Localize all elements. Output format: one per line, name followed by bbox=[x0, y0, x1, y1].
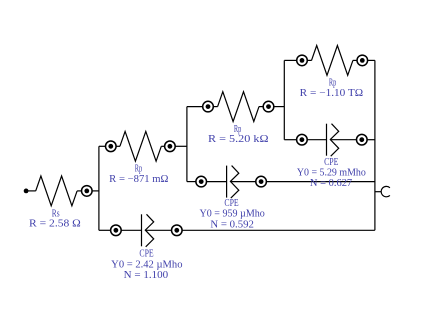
wire N12 to CPE1 bbox=[121, 229, 141, 231]
wire N10 to CPE2 bbox=[207, 181, 227, 183]
capacitor CPE3 plate (Y0 = 5.29 mMho) bbox=[326, 124, 328, 156]
node N13 bbox=[172, 225, 183, 236]
wire vertical V4 (right rail) bbox=[374, 60, 376, 230]
wire node N1 to vertical V1 bbox=[92, 190, 99, 192]
wire N13 to right rail V4 bbox=[182, 229, 375, 231]
wire CPE3 to node N9 bbox=[330, 139, 356, 141]
svg-text:R = −1.10 TΩ: R = −1.10 TΩ bbox=[300, 88, 364, 99]
capacitor CPE1 plate (Y0 = 2.42 uMho) bbox=[141, 214, 143, 246]
wire V2 bottom to node N10 bbox=[187, 181, 196, 183]
node N8 bbox=[297, 134, 308, 145]
wire N6 to Rp3 bbox=[307, 59, 311, 61]
wire N4 to Rp2 bbox=[213, 106, 217, 108]
wire V1 top to node N2 bbox=[99, 145, 106, 147]
node N4 bbox=[203, 101, 214, 112]
wire N7 to right rail V4 bbox=[368, 59, 375, 61]
capacitor CPE2 plate (Y0 = 959 uMho) bbox=[226, 166, 228, 198]
wire vertical V1 (junction rail) bbox=[98, 146, 100, 230]
node N9 bbox=[357, 134, 368, 145]
wire Rp2 to node N5 bbox=[259, 106, 263, 108]
wire right rail to terminal T2 bbox=[375, 191, 381, 193]
capacitor CPE3 zigzag bbox=[330, 124, 338, 157]
wire V2 top to node N4 bbox=[187, 106, 203, 108]
wire CPE2 to node N11 bbox=[230, 181, 255, 183]
resistor Rp2 (R = 5.20 kOhm) bbox=[218, 92, 259, 122]
svg-text:N = 0.627: N = 0.627 bbox=[310, 178, 352, 189]
svg-text:Y0 = 959 µMho: Y0 = 959 µMho bbox=[200, 208, 265, 219]
svg-text:CPE: CPE bbox=[324, 157, 338, 168]
node N7 bbox=[357, 55, 368, 66]
wire N5 to vertical V3 bbox=[274, 106, 285, 108]
node N12 bbox=[111, 225, 122, 236]
resistor Rp1 (R = -871 mOhm) bbox=[120, 131, 161, 161]
svg-text:R = 5.20 kΩ: R = 5.20 kΩ bbox=[208, 134, 269, 145]
svg-text:CPE: CPE bbox=[224, 198, 238, 209]
resistor Rp3 (R = -1.10 TOhm) bbox=[312, 46, 353, 76]
svg-text:Rp: Rp bbox=[329, 77, 336, 88]
node N3 bbox=[165, 141, 176, 152]
wire Rp1 to node N3 bbox=[161, 145, 164, 147]
svg-text:R = 2.58 Ω: R = 2.58 Ω bbox=[29, 219, 81, 230]
svg-text:R = −871 mΩ: R = −871 mΩ bbox=[109, 174, 168, 185]
terminal T2 (output, open clip) bbox=[381, 186, 390, 196]
svg-text:CPE: CPE bbox=[139, 248, 153, 259]
wire vertical V2 (junction rail) bbox=[186, 107, 188, 182]
wire vertical V3 (junction rail) bbox=[283, 60, 285, 139]
wire CPE1 to node N13 bbox=[145, 229, 171, 231]
wire T1 to Rs bbox=[28, 190, 36, 192]
resistor Rs bbox=[36, 176, 77, 206]
wire N9 to right rail V4 bbox=[367, 139, 375, 141]
svg-text:N = 1.100: N = 1.100 bbox=[124, 270, 169, 281]
node N11 bbox=[256, 176, 267, 187]
node N5 bbox=[263, 101, 274, 112]
wire Rp3 to node N7 bbox=[353, 59, 357, 61]
svg-text:Rp: Rp bbox=[135, 164, 142, 175]
wire V3 top to node N6 bbox=[284, 59, 296, 61]
wire N2 to Rp1 bbox=[116, 145, 120, 147]
capacitor CPE1 zigzag bbox=[145, 214, 153, 247]
node N10 bbox=[196, 176, 207, 187]
node N1 bbox=[82, 186, 93, 197]
capacitor CPE2 zigzag bbox=[230, 166, 238, 199]
node N6 bbox=[297, 55, 308, 66]
terminal T1 (input) bbox=[24, 189, 29, 194]
wire V1 bottom to node N12 bbox=[99, 229, 111, 231]
wire Rs to node N1 bbox=[77, 190, 81, 192]
node N2 bbox=[106, 141, 117, 152]
wire N3 to vertical V2 bbox=[175, 145, 187, 147]
wire V3 bottom to node N8 bbox=[284, 139, 296, 141]
svg-text:Y0 = 2.42 µMho: Y0 = 2.42 µMho bbox=[111, 260, 182, 271]
wire N11 to right rail V4 bbox=[266, 181, 375, 183]
svg-text:N = 0.592: N = 0.592 bbox=[210, 219, 254, 230]
wire N8 to CPE3 bbox=[307, 139, 326, 141]
